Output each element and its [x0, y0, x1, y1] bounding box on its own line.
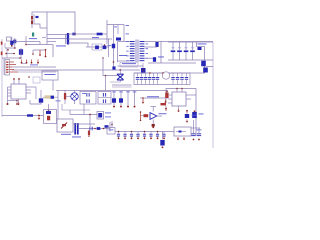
- capacitor C3: [141, 68, 146, 73]
- transistor Q1: [95, 46, 99, 50]
- optocoupler U4 inner: [61, 123, 67, 129]
- wire: [29, 100, 31, 104]
- capacitor CL1: [117, 131, 120, 140]
- capacitor C10: [197, 128, 201, 136]
- wire: [10, 64, 17, 66]
- transistor Q5: [39, 98, 43, 102]
- wire: [204, 47, 206, 74]
- wire: [47, 38, 67, 40]
- module TB1: [107, 128, 115, 135]
- capacitor CB1-1: [136, 73, 139, 85]
- node L: [48, 110, 50, 112]
- pin U2-7b: [26, 92, 31, 94]
- capacitor C8: [89, 127, 92, 131]
- wire: [74, 101, 76, 104]
- capacitor CL4: [136, 132, 139, 140]
- wire: [64, 91, 66, 94]
- wire: [120, 63, 138, 68]
- resistor R6: [144, 114, 149, 117]
- connector J1: [5, 60, 10, 76]
- resistor R2: [31, 21, 33, 24]
- label C2w: [126, 33, 130, 36]
- wire: [185, 42, 187, 50]
- label U8: [159, 112, 167, 115]
- ground: [177, 137, 180, 140]
- wire: [179, 42, 181, 50]
- ground: [16, 103, 18, 105]
- pin U6-gnd: [178, 106, 180, 109]
- wire: [2, 115, 44, 117]
- resistor R9: [45, 95, 51, 98]
- pin U2-8: [13, 78, 15, 84]
- transformer T1 pin labels right: [146, 44, 148, 59]
- capacitor CB2-4: [185, 73, 188, 85]
- vcc arrow: [186, 110, 188, 114]
- wire: [160, 42, 162, 64]
- node U: [111, 121, 113, 128]
- wire: [152, 119, 154, 124]
- wire: [117, 42, 119, 63]
- label sense: [147, 95, 159, 98]
- wire: [86, 46, 109, 48]
- node P: [119, 69, 121, 71]
- wire: [34, 14, 47, 28]
- label Q6: [199, 113, 204, 116]
- wire: [113, 25, 115, 71]
- wire: [148, 62, 196, 64]
- wire: [134, 91, 136, 106]
- label VOUT: [198, 43, 207, 46]
- wire: [191, 127, 200, 129]
- diode D1: [97, 33, 103, 36]
- node T: [194, 110, 196, 112]
- wire: [16, 101, 18, 104]
- label T1: [119, 54, 127, 57]
- capacitor CB1-2: [140, 73, 143, 85]
- wire: [140, 97, 168, 99]
- label U1: [32, 33, 34, 37]
- resistor R7: [64, 93, 66, 100]
- wire: [30, 103, 41, 104]
- wire: [33, 49, 46, 51]
- node C: [113, 61, 115, 63]
- wire: [25, 36, 27, 45]
- wire: [165, 106, 167, 111]
- label bank3: [133, 91, 137, 94]
- testpoint TP31.5: [31, 60, 33, 64]
- wire: [5, 47, 15, 49]
- ground: [120, 106, 122, 108]
- label 103: [92, 36, 99, 39]
- capacitor C14: [86, 99, 89, 103]
- wire: [56, 90, 112, 92]
- capacitor C1: [36, 16, 39, 18]
- label U4: [61, 133, 71, 136]
- wire: [212, 42, 214, 148]
- label C13: [82, 92, 86, 95]
- connector J1 pins: [6, 62, 8, 73]
- label net1: [122, 62, 136, 65]
- node Q2d: [104, 44, 105, 45]
- capacitor C5: [39, 50, 41, 56]
- module CAPBOX1: [80, 92, 96, 105]
- node H2: [25, 44, 27, 46]
- node H: [5, 53, 15, 55]
- wire: [11, 37, 13, 41]
- wire: [22, 63, 27, 65]
- wire: [2, 57, 22, 59]
- wire: [103, 33, 108, 35]
- wire: [79, 128, 110, 130]
- wire: [102, 58, 104, 70]
- capacitor C15: [103, 93, 106, 97]
- wire: [108, 39, 110, 57]
- label bank1: [119, 91, 123, 94]
- wire: [110, 81, 120, 83]
- pin U2-2: [8, 89, 12, 91]
- node K: [38, 115, 40, 117]
- diode D5: [155, 42, 158, 47]
- ground: [142, 101, 145, 104]
- wire: [140, 111, 142, 121]
- capacitor C11: [152, 124, 155, 128]
- label U5b: [105, 116, 111, 119]
- wire: [39, 42, 41, 45]
- wire: [142, 98, 144, 101]
- wire: [145, 46, 158, 48]
- diode D14: [97, 127, 101, 130]
- wire: [118, 60, 130, 62]
- wire: [47, 41, 56, 43]
- wire: [162, 132, 164, 140]
- node R: [142, 97, 144, 99]
- wire: [123, 25, 125, 42]
- wire: [185, 52, 187, 60]
- wire: [142, 63, 144, 68]
- wire: [10, 69, 15, 71]
- wire: [119, 70, 121, 74]
- wire: [109, 122, 111, 132]
- capacitor C2: [116, 38, 121, 41]
- wire: [172, 52, 174, 60]
- pin U6-8t: [181, 88, 182, 92]
- ic U5: [97, 112, 104, 120]
- wire: [46, 12, 48, 45]
- node E: [28, 76, 30, 78]
- diode D16: [112, 98, 116, 102]
- diode D8: [177, 50, 182, 52]
- node B: [102, 57, 104, 59]
- diode D12: [51, 96, 54, 99]
- inductor FL1b: [65, 34, 67, 44]
- wire: [89, 115, 91, 129]
- wire: [115, 131, 174, 133]
- resistor R1: [31, 16, 33, 19]
- wire: [192, 52, 194, 60]
- label D8: [178, 46, 181, 49]
- wire: [118, 65, 144, 67]
- module QBOX: [92, 44, 102, 50]
- label D12: [56, 100, 61, 103]
- capacitor C6: [45, 49, 47, 57]
- wire: [166, 89, 196, 98]
- ground: [127, 106, 129, 108]
- capacitor CL3: [130, 131, 133, 140]
- ground: [198, 139, 200, 141]
- wire: [10, 61, 15, 63]
- diode D17: [119, 98, 123, 102]
- wire: [48, 104, 50, 111]
- wire: [98, 97, 111, 99]
- pin U6-5: [186, 94, 196, 96]
- wire: [168, 59, 213, 61]
- pin U6-3: [168, 102, 172, 104]
- transformer T1 primary turns: [130, 41, 135, 61]
- wire: [151, 106, 157, 108]
- ground: [134, 106, 136, 108]
- label C2v: [126, 24, 130, 27]
- ground: [162, 146, 164, 148]
- capacitor CL6: [149, 132, 152, 140]
- ground: [183, 137, 186, 140]
- wire: [7, 87, 9, 103]
- wire: [15, 41, 40, 43]
- varistor RV2: [13, 40, 16, 44]
- resistor R8: [88, 131, 90, 137]
- node F: [11, 45, 13, 47]
- module CAPBOX2: [98, 92, 111, 105]
- transformer T1 pin labels left: [126, 41, 128, 61]
- wire: [105, 76, 107, 91]
- wire: [103, 70, 117, 76]
- label bank2: [126, 91, 130, 94]
- wire: [66, 96, 70, 98]
- capacitor CB2-2: [176, 73, 179, 85]
- thermistor RT1: [160, 140, 164, 146]
- wire: [8, 100, 18, 102]
- module CB1: [134, 73, 190, 85]
- pin U2-1: [8, 86, 12, 88]
- wire: [6, 53, 15, 55]
- capacitor CB1-6: [156, 73, 159, 85]
- optocoupler U4: [57, 119, 73, 132]
- wire: [68, 38, 112, 40]
- wire: [28, 44, 53, 46]
- diode D2: [112, 44, 115, 49]
- wire: [74, 91, 76, 93]
- wire: [141, 115, 144, 117]
- label TB1: [109, 129, 114, 132]
- resistor R4: [161, 103, 167, 105]
- node O: [89, 114, 91, 116]
- module LEDBOX: [44, 110, 57, 124]
- wire: [1, 39, 3, 117]
- transistor Q4: [203, 68, 208, 73]
- wire: [4, 43, 6, 48]
- thermistor RT2: [10, 41, 13, 45]
- node S: [166, 91, 168, 93]
- node F2: [14, 47, 16, 49]
- pin U2-3: [8, 92, 12, 94]
- wire: [54, 96, 58, 98]
- wire: [152, 107, 154, 112]
- ground: [186, 120, 189, 123]
- connector J2 pin: [1, 42, 3, 45]
- node I: [32, 53, 34, 55]
- wire: [14, 38, 16, 48]
- capacitor CB1-3: [144, 73, 147, 85]
- led LED1: [47, 116, 50, 121]
- wire: [32, 50, 34, 54]
- diode D6: [153, 57, 156, 62]
- module PS1: [42, 71, 58, 80]
- wire: [195, 89, 197, 137]
- wire: [118, 41, 130, 43]
- label C10: [197, 129, 202, 132]
- label bank0: [112, 91, 116, 94]
- wire: [68, 33, 96, 35]
- wire: [158, 115, 163, 117]
- wire: [192, 42, 194, 50]
- wire: [145, 57, 154, 59]
- ground: [177, 109, 180, 112]
- diode D9: [184, 50, 189, 52]
- wire: [127, 91, 129, 106]
- ic U5 mark: [98, 113, 102, 118]
- transistor Q2: [103, 46, 107, 50]
- wire: [179, 52, 181, 60]
- capacitor C4: [33, 77, 40, 83]
- node M: [94, 128, 96, 130]
- testpoint TP26.5: [26, 60, 28, 64]
- fuse F2: [72, 33, 75, 36]
- wire: [117, 25, 119, 35]
- label D6: [158, 56, 164, 59]
- wire: [172, 42, 174, 50]
- wire: [112, 84, 132, 86]
- pin U6-6: [186, 98, 191, 100]
- wire: [47, 34, 67, 36]
- capacitor C12: [112, 66, 115, 69]
- wire: [12, 69, 140, 71]
- wire: [68, 43, 88, 47]
- diode D15: [105, 125, 109, 128]
- label D7: [172, 46, 175, 49]
- wire: [3, 58, 5, 76]
- ground: [17, 102, 20, 105]
- connector J2 pin2: [1, 52, 3, 56]
- label U1b: [42, 36, 46, 39]
- capacitor C7: [75, 123, 78, 135]
- wire: [43, 96, 45, 98]
- node N: [103, 128, 105, 130]
- wire: [145, 41, 214, 43]
- label D18: [192, 114, 197, 117]
- wire: [52, 45, 54, 58]
- zener D11: [198, 47, 202, 50]
- ground: [7, 103, 9, 105]
- ground: [38, 117, 41, 120]
- node Q: [149, 72, 163, 73]
- ground: [165, 99, 167, 103]
- wire: [32, 12, 75, 34]
- label PS1: [45, 73, 56, 76]
- wire: [64, 100, 66, 105]
- zener D13: [46, 111, 51, 114]
- varistor RV1: [117, 74, 124, 81]
- pin U2-6: [26, 89, 31, 91]
- node A2: [74, 34, 75, 35]
- ground: [193, 139, 195, 141]
- wire: [206, 66, 213, 68]
- pin U2-7: [18, 78, 20, 84]
- capacitor CL2: [123, 132, 126, 140]
- transformer T1 secondary turns: [140, 41, 145, 61]
- vcc arrow: [165, 108, 167, 111]
- node P2: [105, 75, 107, 77]
- capacitor C16: [103, 99, 106, 103]
- transistor Q3: [201, 61, 206, 67]
- capacitor CB2-1: [171, 73, 174, 85]
- capacitor CL7: [156, 131, 159, 140]
- wire: [52, 80, 54, 91]
- wire: [18, 71, 56, 73]
- switch S1: [7, 37, 12, 41]
- label D10: [191, 46, 194, 49]
- wire: [73, 123, 95, 125]
- diode D10: [190, 50, 195, 52]
- ic U2: [11, 84, 26, 99]
- label C2: [114, 26, 117, 29]
- wire: [26, 44, 30, 46]
- wire: [10, 71, 19, 73]
- capacitor C13: [86, 93, 89, 97]
- resistor R3: [27, 114, 33, 116]
- wire: [107, 24, 124, 26]
- wire: [70, 114, 97, 116]
- wire: [20, 48, 22, 58]
- wire: [134, 72, 205, 74]
- resistor R5: [165, 93, 168, 99]
- node D: [19, 57, 21, 59]
- ground: [113, 106, 115, 108]
- op-amp U8: [150, 113, 157, 120]
- wire: [197, 42, 205, 47]
- testpoint TP38: [37, 60, 39, 64]
- diode D18: [185, 114, 189, 118]
- label FL1: [56, 45, 66, 48]
- diode D7: [171, 50, 176, 52]
- ground: [7, 49, 9, 51]
- label U5a: [105, 112, 111, 115]
- wire: [165, 98, 167, 103]
- current transformer CT1: [162, 72, 169, 79]
- pin U2-gnd: [18, 99, 20, 102]
- inductor L2: [19, 49, 23, 55]
- node J: [16, 100, 18, 102]
- pin U2-4: [8, 95, 12, 97]
- module U7 inner: [176, 131, 186, 133]
- transformer T1 core: [135, 40, 139, 63]
- pin U6-7t: [176, 88, 177, 92]
- node A: [31, 20, 32, 21]
- wire: [6, 48, 8, 58]
- testpoint TP21.5: [21, 60, 23, 64]
- label D9: [185, 46, 188, 49]
- module U7: [174, 127, 191, 136]
- pin U2-5: [26, 86, 36, 88]
- transistor Q6: [192, 112, 197, 118]
